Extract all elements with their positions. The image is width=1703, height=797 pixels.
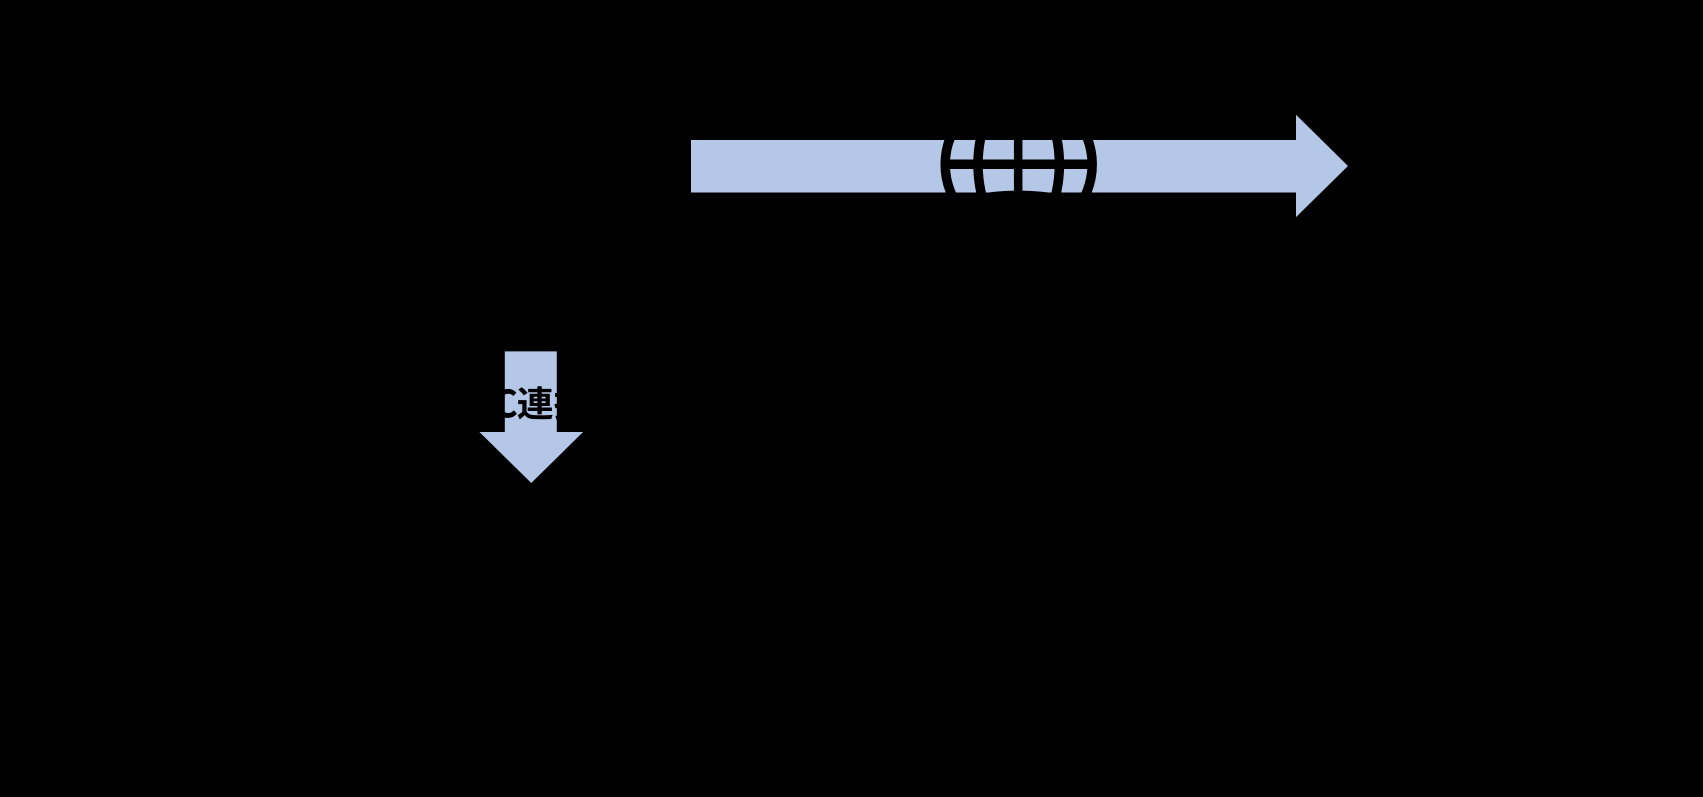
globe outer circle (945, 91, 1092, 238)
text EC連携 (black, partially visible over down arrow) (473, 386, 589, 420)
text glyph letter C (495, 389, 517, 418)
text glyph kanji 携 (554, 386, 589, 420)
globe central meridian line (1014, 90, 1023, 238)
globe icon over horizontal arrow (945, 90, 1093, 238)
horizontal blue arrow (internet link) (691, 115, 1348, 217)
globe meridian ellipse (978, 90, 1059, 238)
globe lower latitude arc (976, 195, 1062, 199)
text glyph kanji 連 (518, 386, 553, 419)
text glyph letter E (hidden on black) (473, 389, 491, 417)
down blue arrow (EC link) (479, 351, 583, 483)
globe equator line (945, 160, 1093, 170)
globe upper latitude arc (976, 130, 1062, 134)
